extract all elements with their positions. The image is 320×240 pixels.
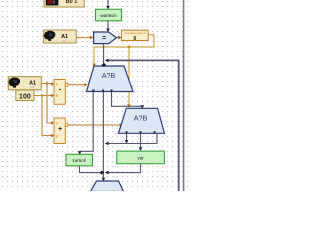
svg-text:B: B — [56, 134, 58, 138]
arithmetic box minus — [54, 80, 68, 105]
svg-text:0: 0 — [133, 36, 136, 42]
wire A1 left to minus A — [41, 82, 54, 86]
wire zurueck bottom to junction — [80, 166, 101, 173]
orange feedback loop from display — [92, 35, 154, 67]
page border — [183, 0, 185, 191]
comparator 2 A?B — [119, 108, 165, 134]
input element A1 (top) — [44, 30, 77, 43]
arithmetic box plus — [54, 118, 68, 144]
branch pentagon = — [94, 32, 117, 44]
subprogram warnton — [96, 9, 122, 20]
comparator 2 outputs 1 and 3 merge wire — [105, 133, 157, 145]
wire 100 to minus B — [34, 94, 54, 98]
wire pentagon bottom to comparator 1 — [103, 44, 105, 65]
wire pentagon to display — [117, 36, 122, 40]
svg-text:minwegzeit: minwegzeit — [124, 31, 146, 35]
svg-text:B: B — [56, 94, 58, 98]
svg-text:+: + — [58, 124, 63, 133]
junction on loop — [127, 45, 131, 108]
wire into warnton — [106, 0, 110, 9]
input element A1 (left) — [8, 77, 41, 90]
svg-text:A?B: A?B — [134, 113, 148, 122]
wire warnton to = pentagon — [106, 21, 110, 32]
comparator 1 A?B — [87, 63, 134, 92]
wire comparator 2 out2 to vor — [139, 133, 143, 151]
branch wire to plus A — [47, 84, 54, 125]
constant box 100 — [16, 90, 34, 101]
subprogram zurueck — [66, 154, 93, 166]
wire minus output to comparator 1 input B — [68, 83, 88, 87]
svg-text:m1: m1 — [62, 38, 66, 42]
trapezoid element (cut off at bottom) — [91, 181, 124, 192]
svg-text:A?B: A?B — [102, 71, 116, 80]
lamp component M1 (cut off at top) — [44, 0, 84, 7]
bottom junction — [100, 171, 105, 175]
long feedback flow wire — [105, 59, 179, 191]
svg-text:m1: m1 — [30, 85, 34, 89]
subprogram vor — [117, 151, 165, 164]
svg-text:100: 100 — [19, 93, 31, 100]
wire plus output to comparator 2 input B — [68, 123, 123, 127]
svg-text:=: = — [102, 35, 106, 42]
branch wire to plus B — [42, 96, 54, 138]
svg-text:warnton: warnton — [100, 13, 117, 18]
wire comparator1 out1 to zurueck — [78, 92, 93, 155]
svg-text:B0 1: B0 1 — [66, 0, 78, 5]
wire vor bottom to junction — [105, 164, 141, 175]
wire comparator1 out3 to comparator 2 top — [112, 92, 145, 109]
wire comparator1 out2 down to bottom junction — [102, 92, 106, 182]
svg-text:vor: vor — [137, 155, 144, 160]
display box 0 — [122, 30, 149, 42]
wire A1 sensor to pentagon — [76, 36, 93, 40]
svg-text:zurück: zurück — [72, 158, 86, 163]
